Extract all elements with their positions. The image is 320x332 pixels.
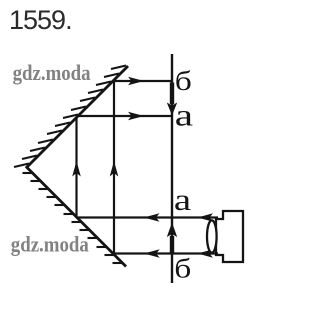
- svg-text:а: а: [174, 183, 192, 217]
- svg-text:б: б: [175, 66, 192, 96]
- svg-text:б: б: [174, 253, 191, 283]
- svg-text:gdz.moda: gdz.moda: [13, 62, 91, 86]
- svg-text:а: а: [175, 98, 193, 132]
- svg-text:gdz.moda: gdz.moda: [11, 233, 89, 257]
- svg-text:1559.: 1559.: [9, 5, 72, 35]
